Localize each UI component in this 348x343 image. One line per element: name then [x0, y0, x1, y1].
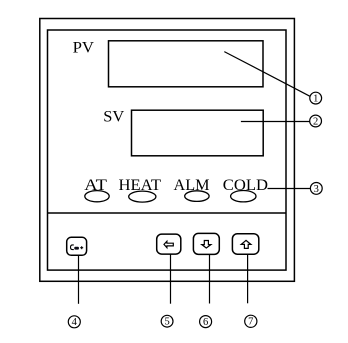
node circled 1 [310, 92, 322, 104]
node circled 6 [200, 316, 212, 328]
svg-text:6: 6 [203, 317, 208, 328]
SV display window [132, 110, 264, 156]
wire callout to 6 (from down key) [209, 255, 211, 304]
wire callout to 3 (from COLD lamp row) [268, 188, 311, 190]
wire callout to 1 (from PV display) [224, 52, 310, 97]
svg-text:5: 5 [164, 317, 169, 328]
indicator lamp AT [85, 191, 109, 202]
icon down hollow arrow [202, 241, 211, 249]
button SET key [67, 237, 87, 255]
separator line between display area and key area [48, 212, 287, 214]
node circled 7 [245, 315, 257, 328]
indicator lamp ALM [185, 191, 209, 202]
svg-text:COLD: COLD [223, 177, 268, 194]
button up key [232, 234, 258, 255]
PV display window [109, 41, 264, 87]
panel inner bezel [48, 30, 287, 270]
wire callout to 7 (from up key) [247, 254, 249, 303]
icon left hollow arrow [164, 241, 173, 247]
svg-text:SV: SV [103, 109, 124, 126]
svg-text:PV: PV [73, 40, 95, 57]
node circled 2 [310, 115, 322, 127]
svg-text:1: 1 [313, 94, 318, 105]
button shift/left key [157, 234, 181, 254]
wire callout to 5 (from shift key) [170, 254, 172, 304]
svg-text:7: 7 [248, 317, 253, 328]
panel outer frame [40, 19, 295, 282]
icon on SET key [71, 245, 84, 250]
svg-text:3: 3 [314, 184, 319, 195]
svg-text:2: 2 [313, 116, 318, 127]
wire callout to 2 (from SV display) [241, 121, 310, 123]
svg-text:4: 4 [72, 317, 78, 328]
node circled 5 [161, 315, 173, 327]
node circled 3 [310, 183, 322, 195]
wire callout to 4 (from SET key) [78, 255, 80, 303]
node circled 4 [68, 316, 80, 328]
button down key [193, 233, 219, 254]
indicator lamp COLD [231, 191, 256, 202]
indicator lamp HEAT [129, 191, 156, 202]
icon up hollow arrow [241, 240, 251, 248]
